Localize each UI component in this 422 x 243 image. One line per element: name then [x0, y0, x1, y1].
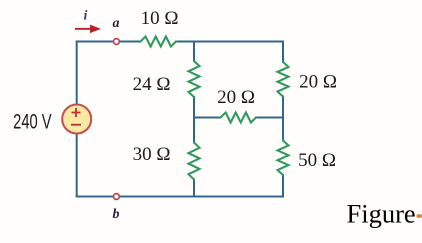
svg-text:i: i — [84, 9, 88, 24]
svg-text:30 Ω: 30 Ω — [133, 144, 171, 165]
svg-text:20 Ω: 20 Ω — [299, 72, 337, 93]
svg-text:24 Ω: 24 Ω — [133, 74, 171, 95]
svg-text:50 Ω: 50 Ω — [298, 150, 336, 171]
svg-text:240 V: 240 V — [13, 111, 52, 134]
svg-text:20 Ω: 20 Ω — [217, 87, 255, 108]
svg-text:10 Ω: 10 Ω — [141, 8, 179, 29]
svg-text:a: a — [113, 16, 120, 31]
svg-text:Figure: Figure — [347, 198, 416, 228]
svg-text:b: b — [113, 207, 120, 222]
